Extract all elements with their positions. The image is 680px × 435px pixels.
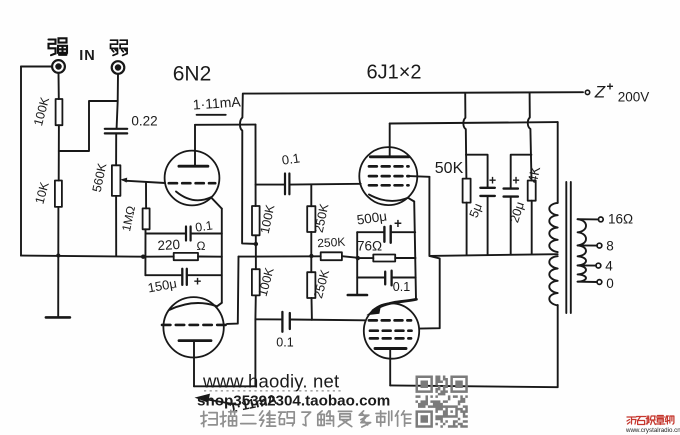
terminal 8 [597, 243, 602, 248]
capacitor C7 0.1 plates [385, 271, 391, 286]
terminal B plus [585, 90, 589, 94]
wire pot bottom to ground bus [115, 196, 117, 256]
svg-text:8: 8 [606, 239, 614, 254]
wire V3 cathode exit [408, 198, 414, 202]
resistor R11 50K body [463, 179, 471, 203]
wire secondary tap 4 [578, 264, 596, 266]
svg-text:0.1: 0.1 [194, 218, 213, 234]
wire cathode rail3 with 150u [145, 274, 221, 276]
svg-text:50K: 50K [435, 160, 464, 177]
junction dot 100K center [254, 242, 258, 246]
wire 100K lower bottom lead [254, 295, 256, 319]
tube V2 6N2b envelope [163, 297, 223, 357]
potentiometer RP 560K body [112, 165, 121, 196]
wire secondary tap 0 [578, 281, 597, 283]
tube V3 6J1 upper envelope [359, 147, 417, 205]
resistor R1 100K body [56, 99, 63, 125]
wire cathode network left vertical [356, 232, 358, 295]
svg-text:150μ: 150μ [147, 276, 178, 296]
wire ground stem [57, 256, 59, 318]
tube V4 suppressor dashes [370, 337, 411, 340]
wire 250K column top lead [310, 185, 312, 207]
ground symbol left [46, 316, 70, 319]
wire 250K mid leads [310, 232, 312, 272]
svg-text:0.1: 0.1 [281, 150, 301, 167]
wire paraphase rail left part [239, 255, 321, 257]
transformer T1 primary upper winding [549, 203, 557, 252]
wire grid to pot wiper [127, 181, 166, 183]
resistor R9 250K horizontal body [321, 252, 342, 260]
wire V3 screen to zigzag [409, 175, 429, 178]
tube V4 grid dashes [369, 319, 411, 322]
capacitor C5 0.1 plates [282, 312, 289, 332]
resistor R3 100K upper body [252, 206, 260, 235]
svg-text:0.22: 0.22 [131, 114, 157, 129]
wire plate line to splitter column [195, 124, 256, 126]
jack strong input [52, 60, 65, 73]
svg-text:www.crystalradio.cn: www.crystalradio.cn [625, 427, 680, 434]
wire 20u bracket [511, 155, 532, 189]
wire 0.22 to 560K pot [115, 134, 117, 166]
wire secondary tap 8 [578, 244, 597, 246]
wire step from junction up to weak line [59, 101, 118, 151]
wire 4K branch from B+ with hop [528, 93, 532, 181]
tube V1 6N2a envelope [165, 151, 220, 206]
wire 500u rail [357, 231, 415, 233]
wire splitter column top [255, 125, 257, 206]
wire 20u bottom lead [510, 197, 512, 254]
wire bottom detour V2 plate to lower rail [194, 319, 255, 386]
capacitor C8 5u plates [480, 188, 494, 196]
svg-text:100K: 100K [258, 203, 278, 235]
wire grid drop to V2 [227, 257, 239, 324]
tube V1 plate lead up [194, 125, 196, 166]
wire coupling rail upper with 0.1 [256, 183, 361, 186]
svg-text:Z: Z [594, 83, 606, 102]
svg-text:1·11mA: 1·11mA [192, 93, 242, 112]
wire 5u bottom lead [487, 196, 489, 254]
tube V3 plate lead up [389, 124, 391, 157]
junction dot rail 250K column [309, 254, 313, 258]
svg-text:100K: 100K [31, 95, 52, 127]
svg-text:560K: 560K [90, 161, 110, 193]
svg-text:+: + [512, 174, 519, 188]
wire 10K bottom to ground bus [57, 207, 59, 256]
svg-text:5μ: 5μ [467, 201, 485, 219]
tube V1 grid dashes [169, 182, 215, 185]
tube V4 6J1 lower envelope [364, 303, 419, 358]
tube V2 cathode arc top [170, 303, 217, 310]
wire screen supply rail [429, 254, 557, 256]
svg-text:0.1: 0.1 [276, 336, 293, 350]
qr code watermark [416, 376, 468, 428]
svg-text:10K: 10K [32, 180, 51, 206]
wire V1 cathode diagonal to vertical [211, 197, 222, 208]
svg-text:6N2: 6N2 [173, 63, 212, 86]
wire bottom rail to transformer [390, 305, 558, 387]
svg-text:6J1×2: 6J1×2 [366, 62, 421, 84]
svg-text:500μ: 500μ [356, 209, 388, 228]
tube V3 suppressor dashes [369, 165, 409, 168]
wire weak jack down [117, 74, 118, 128]
junction dot 76 rail [356, 256, 360, 260]
resistor R2 10K body [55, 181, 62, 207]
resistor R6 1M body [143, 208, 150, 229]
svg-text:www.haodiy. net: www.haodiy. net [202, 371, 339, 392]
junction dot bus 1M column [141, 255, 145, 259]
resistor R12 4K body [528, 181, 536, 201]
resistor R4 100K lower body [252, 269, 260, 295]
logo crystalradio red [627, 416, 674, 425]
label weak (ruo) chinese [111, 40, 128, 55]
tube V3 plate bar [370, 155, 409, 158]
wire left cathode vertical [144, 229, 146, 275]
wire 4K bottom lead [531, 201, 533, 254]
wire 220 rail right lead [198, 256, 222, 258]
svg-text:shop35392304.taobao.com: shop35392304.taobao.com [197, 393, 390, 410]
wire between 100K resistors crossing rail [255, 235, 257, 269]
wire 50K bottom lead [466, 203, 468, 255]
wire shared cathode vertical [414, 202, 416, 300]
svg-text:0.1: 0.1 [393, 280, 410, 294]
capacitor C2 0.1 plates [186, 227, 191, 241]
tube V2 plate bar [179, 339, 211, 342]
tube V1 plate bar [179, 165, 208, 168]
resistor R5 220 body [174, 253, 198, 260]
capacitor C4 0.1 plates [285, 174, 289, 195]
svg-text:100K: 100K [256, 265, 277, 297]
svg-text:IN: IN [79, 48, 96, 64]
potentiometer wiper arrow [123, 180, 128, 181]
junction dot bus 10K [56, 253, 60, 257]
resistor R7 250K upper body [307, 206, 315, 232]
svg-text:1MΩ: 1MΩ [119, 205, 138, 233]
wire 50K branch from B+ with hop [463, 93, 466, 179]
annotation arrow lower plate current [200, 398, 236, 404]
watermark chinese scan-qr-code line [201, 410, 411, 427]
svg-text:Ω: Ω [197, 239, 206, 253]
svg-text:250K: 250K [317, 235, 346, 250]
svg-text:+: + [489, 174, 496, 188]
svg-text:+: + [194, 274, 202, 289]
wire 5u bracket [466, 155, 488, 188]
wire left vertical rail to ground bus [20, 67, 22, 256]
wire screen zigzag vertical [419, 177, 439, 329]
wire cathode rail1 with 0.1 [146, 233, 222, 235]
wire lower rail left with 0.1 [255, 319, 365, 320]
tube V4 plate bar [375, 347, 406, 350]
label strong (qiang) chinese [49, 38, 68, 55]
annotation underline 1.11mA top [197, 114, 226, 116]
wire 100K bottom to 10K top with junction [58, 125, 60, 180]
wire B+ rail [243, 92, 583, 93]
wire B+ drop with hop over plate line [240, 94, 256, 244]
tube V3 screen dashes [369, 175, 409, 178]
svg-text:16Ω: 16Ω [608, 212, 633, 227]
wire 220 rail left lead [143, 256, 174, 258]
wire ground bus [21, 256, 144, 257]
svg-text:4: 4 [605, 259, 613, 274]
wire plate rail to transformer top [390, 122, 558, 123]
svg-text:4K: 4K [525, 165, 543, 184]
tube V3 grid dashes [369, 184, 409, 187]
wire paraphase rail right lead [342, 256, 358, 258]
wire 76 rail left [358, 257, 374, 259]
wire 0.1 cathode rail [357, 277, 415, 279]
resistor R8 250K lower body [307, 272, 315, 298]
transformer T1 core lines [566, 182, 571, 313]
tube V3 cathode arc [369, 195, 408, 201]
capacitor C6 500u plates [384, 226, 390, 243]
wire 76 rail right [395, 257, 415, 259]
jack weak input [112, 61, 125, 74]
svg-text:+: + [394, 216, 402, 231]
tube V2 plate lead down [193, 341, 195, 387]
transformer T1 secondary winding [578, 219, 586, 282]
svg-text:76Ω: 76Ω [357, 239, 382, 254]
wire right cathode vertical [221, 209, 223, 303]
svg-text:0: 0 [606, 276, 614, 291]
capacitor C9 20u plates [504, 189, 518, 197]
svg-text:220: 220 [157, 237, 180, 253]
terminal 0 [597, 280, 602, 285]
transformer T1 primary top lead [557, 122, 559, 203]
ground symbol right [348, 294, 367, 297]
wire strong jack down to 100K [58, 73, 60, 99]
wire V2 cathode diagonal [217, 303, 222, 307]
tube V4 cathode arc bold with arrow [373, 299, 416, 310]
transformer T1 primary lower winding [549, 256, 557, 305]
tube V1 cathode arc [176, 192, 211, 201]
tube V2 grid dashes [162, 324, 227, 327]
svg-text:200V: 200V [618, 90, 650, 105]
tube V4 plate lead down [389, 349, 391, 386]
capacitor C3 150u plates [182, 269, 187, 285]
tube V4 screen dashes [370, 329, 412, 332]
wire secondary tap 16 ohm [578, 218, 599, 220]
capacitor C1 0.22 plates [105, 129, 127, 134]
resistor R10 76ohm body [373, 255, 395, 262]
wire 250K bottom lead [311, 298, 313, 320]
svg-text:+: + [606, 80, 613, 94]
wire 1M top to grid line [145, 182, 147, 208]
terminal 16 ohm [598, 217, 603, 222]
terminal 4 [596, 263, 601, 268]
wire input left horizontal to strong jack [21, 66, 52, 68]
